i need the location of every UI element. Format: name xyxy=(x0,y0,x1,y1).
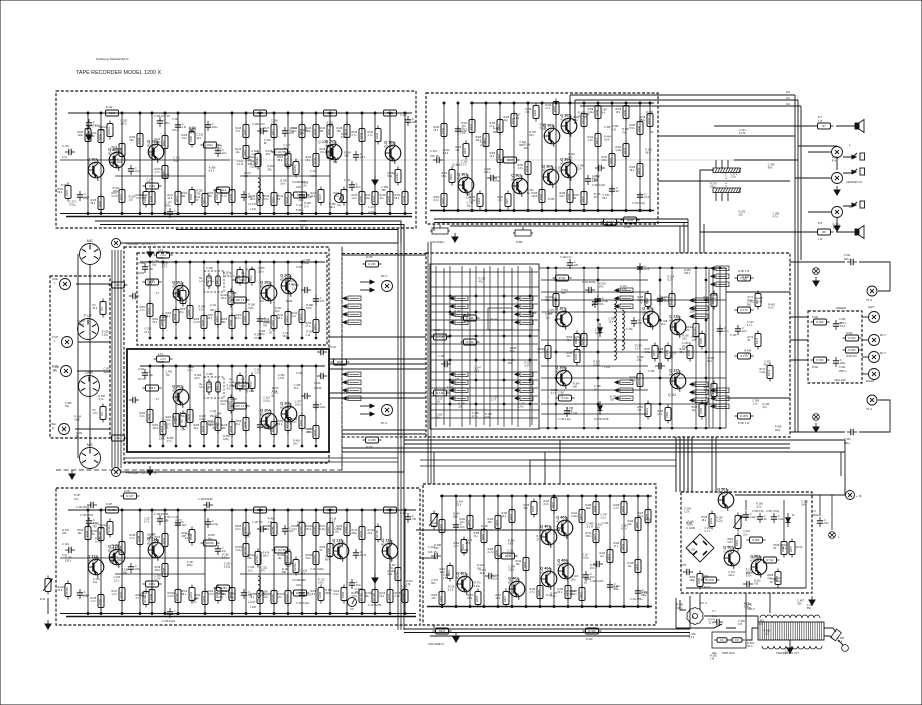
plug R arrow xyxy=(852,203,856,207)
svg-text:Tandbergs Radiofabrikk %: Tandbergs Radiofabrikk % xyxy=(96,57,129,61)
svg-text:VU: VU xyxy=(337,203,341,207)
svg-text:8,2 k: 8,2 k xyxy=(209,170,215,173)
svg-text:4,7 k: 4,7 k xyxy=(747,324,753,327)
svg-text:2,2 M: 2,2 M xyxy=(620,288,626,291)
svg-text:470: 470 xyxy=(355,591,360,594)
svg-text:BC 147: BC 147 xyxy=(147,541,157,545)
svg-text:390: 390 xyxy=(477,567,482,570)
svg-text:0,01µ: 0,01µ xyxy=(224,566,231,569)
resistor R238 xyxy=(331,359,350,365)
svg-text:100µ: 100µ xyxy=(365,197,371,200)
junction preL bot x176 xyxy=(175,337,177,339)
junction J rail x582 xyxy=(581,495,583,497)
svg-text:100µ: 100µ xyxy=(485,416,491,419)
inductor L103 xyxy=(258,576,260,598)
svg-text:R403: R403 xyxy=(439,595,443,602)
resistor R211 xyxy=(278,309,292,328)
capacitor C219 xyxy=(317,349,327,355)
svg-text:10µ: 10µ xyxy=(278,557,283,560)
junction matrix grid xyxy=(475,311,477,313)
resistor C 110 58µ xyxy=(272,149,291,155)
resistor R6 xyxy=(173,411,187,430)
svg-text:22 k: 22 k xyxy=(577,167,582,170)
svg-text:R435: R435 xyxy=(537,589,541,596)
resistor R330 xyxy=(434,121,448,140)
resistor R313 xyxy=(602,151,616,170)
resistor R163b xyxy=(292,520,306,539)
capacitor trim xyxy=(592,298,605,308)
junction I bus x101 xyxy=(100,613,102,615)
svg-text:22 k: 22 k xyxy=(299,199,304,202)
junction J rail x610 xyxy=(609,495,611,497)
resistor R164 xyxy=(704,291,718,310)
resistor R104 xyxy=(91,127,105,146)
resistor R152 xyxy=(567,331,581,350)
svg-text:390: 390 xyxy=(488,521,493,524)
svg-text:D 2 TM 47UB: D 2 TM 47UB xyxy=(594,418,609,421)
resistor R149 xyxy=(142,587,156,606)
svg-text:0,068: 0,068 xyxy=(310,175,317,178)
resistor R414 xyxy=(614,537,628,556)
resistor R216p xyxy=(221,289,235,308)
resistor R167 xyxy=(320,520,334,539)
svg-text:R315: R315 xyxy=(637,167,641,174)
svg-text:3,3 k: 3,3 k xyxy=(95,541,101,544)
svg-text:2,7 k: 2,7 k xyxy=(91,600,97,603)
svg-text:560: 560 xyxy=(130,139,135,142)
resistor R509 xyxy=(690,571,704,590)
node link R2 xyxy=(115,573,205,575)
main bus x404 xyxy=(403,243,405,630)
resistor R438 xyxy=(586,499,600,518)
svg-text:2,7 k: 2,7 k xyxy=(162,265,168,268)
resistor R196 xyxy=(291,192,310,198)
junction matrix grid xyxy=(449,335,451,337)
junction B rail x612 xyxy=(611,102,613,104)
wire xyxy=(704,624,722,628)
svg-text:27 k: 27 k xyxy=(306,325,311,328)
svg-text:R232: R232 xyxy=(299,419,303,426)
osc grid wire x720 xyxy=(719,270,721,426)
svg-text:560: 560 xyxy=(747,304,752,307)
output line 113 xyxy=(570,94,795,96)
switch contact xyxy=(450,380,468,385)
resistor R436 xyxy=(558,583,572,602)
svg-text:56 k: 56 k xyxy=(153,321,158,324)
svg-text:470: 470 xyxy=(738,623,743,626)
wire xyxy=(721,193,723,201)
svg-text:27 k: 27 k xyxy=(164,519,169,522)
svg-text:Q 206: Q 206 xyxy=(246,389,255,393)
resistor R198 xyxy=(155,561,169,580)
resistor R301 xyxy=(442,167,456,186)
junction I bus x362 xyxy=(361,613,363,615)
svg-text:6,8 k: 6,8 k xyxy=(264,198,270,201)
transistor Q 206 xyxy=(280,402,297,425)
wire xyxy=(259,262,261,338)
svg-text:R509: R509 xyxy=(697,577,701,584)
svg-text:BC 107 B: BC 107 B xyxy=(508,580,520,584)
capacitor C161 xyxy=(215,545,227,555)
junction matrix grid xyxy=(503,359,505,361)
svg-text:5,6 k: 5,6 k xyxy=(630,127,636,130)
svg-text:8,2 k: 8,2 k xyxy=(236,528,242,531)
junction osc grid xyxy=(659,319,661,321)
svg-text:6,8 k: 6,8 k xyxy=(306,557,312,560)
svg-text:1,5 k: 1,5 k xyxy=(764,632,770,635)
svg-text:R334: R334 xyxy=(525,165,529,172)
svg-text:68 k: 68 k xyxy=(289,530,294,533)
resistor R4 xyxy=(93,404,107,423)
svg-text:3,3 k: 3,3 k xyxy=(264,130,270,133)
wire xyxy=(637,496,639,606)
osc grid wire x556 xyxy=(555,270,557,426)
junction I rail x405 xyxy=(404,509,406,511)
svg-text:C 108 / 1,5 /: C 108 / 1,5 / xyxy=(252,123,265,126)
svg-text:390: 390 xyxy=(320,130,325,133)
svg-text:112: 112 xyxy=(786,97,790,100)
svg-text:27 k: 27 k xyxy=(546,107,551,110)
wire xyxy=(245,366,247,446)
svg-text:R117: R117 xyxy=(271,128,275,135)
switch contact xyxy=(711,274,729,279)
transistor Q 502 xyxy=(723,546,740,569)
main bus x428 xyxy=(427,242,429,484)
svg-text:470: 470 xyxy=(261,569,266,572)
junction osc rail x706 xyxy=(705,267,707,269)
svg-text:100µ: 100µ xyxy=(494,179,500,182)
svg-text:470: 470 xyxy=(526,111,531,114)
svg-text:33 k: 33 k xyxy=(135,170,140,173)
svg-text:R 236: R 236 xyxy=(369,262,376,266)
junction A bus x390 xyxy=(389,213,391,215)
bar wire upper xyxy=(734,159,798,161)
svg-text:560: 560 xyxy=(382,189,387,192)
resistor R121 xyxy=(278,151,292,170)
svg-text:R330: R330 xyxy=(441,127,445,134)
junction preR rail x176 xyxy=(175,365,177,367)
junction osc bus x672 xyxy=(671,427,673,429)
resistor R110 xyxy=(155,133,169,152)
junction matrix grid xyxy=(449,379,451,381)
svg-text:2,2 M: 2,2 M xyxy=(112,195,118,198)
resistor R182 xyxy=(208,187,222,206)
svg-text:R336: R336 xyxy=(567,193,571,200)
junction preR rail x288 xyxy=(287,365,289,367)
svg-text:18 k: 18 k xyxy=(616,111,621,114)
svg-text:8,2 k: 8,2 k xyxy=(747,645,753,648)
junction A rail x165 xyxy=(164,112,166,114)
junction osc grid xyxy=(597,403,599,405)
wire xyxy=(121,510,123,613)
svg-text:8,2 k: 8,2 k xyxy=(544,503,550,506)
resistor R157 xyxy=(645,343,659,362)
wire xyxy=(149,262,151,338)
junction preR bot x176 xyxy=(175,445,177,447)
svg-text:8Ω H: 8Ω H xyxy=(880,352,886,355)
svg-text:2,2 M: 2,2 M xyxy=(587,526,593,529)
main bus x798 xyxy=(797,100,799,432)
resistor R 187 xyxy=(735,275,754,281)
svg-text:PWR 2519: PWR 2519 xyxy=(722,651,735,655)
dashed partition x342 xyxy=(341,247,343,470)
wire xyxy=(569,103,571,210)
head arrow 3 xyxy=(370,404,374,408)
capacitor C122 xyxy=(241,191,254,201)
junction preR rail x163 xyxy=(162,365,164,367)
svg-text:YELLOW: YELLOW xyxy=(834,378,846,382)
connector P UP xyxy=(78,314,99,340)
svg-text:1,5 k: 1,5 k xyxy=(558,394,564,397)
svg-text:220: 220 xyxy=(739,214,744,217)
junction B rail x472 xyxy=(471,102,473,104)
svg-text:R116: R116 xyxy=(243,149,247,156)
svg-text:R238: R238 xyxy=(337,360,344,364)
svg-text:R 141: R 141 xyxy=(467,316,474,320)
resistor R180 xyxy=(182,129,196,148)
svg-text:RT H: RT H xyxy=(381,421,387,425)
resistor R308 xyxy=(501,157,520,163)
wire xyxy=(151,510,153,613)
svg-text:R120: R120 xyxy=(285,196,289,203)
wire xyxy=(443,268,445,425)
junction osc grid xyxy=(555,299,557,301)
junction preR bot x190 xyxy=(189,445,191,447)
junction matrix grid xyxy=(529,311,531,313)
jack link wire2 xyxy=(836,218,838,226)
supply rail R xyxy=(68,509,416,511)
resistor R197 xyxy=(321,507,340,513)
svg-text:R210: R210 xyxy=(271,319,275,326)
osc grid wire y340 xyxy=(541,339,648,341)
bus drop x680 xyxy=(679,437,681,492)
svg-text:250µ: 250µ xyxy=(682,345,688,348)
wire to C jack xyxy=(795,177,831,179)
svg-text:BC 147: BC 147 xyxy=(147,143,157,147)
svg-text:R112: R112 xyxy=(207,143,214,147)
svg-text:AD 150 E: AD 150 E xyxy=(557,562,569,566)
svg-text:68 k: 68 k xyxy=(325,558,330,561)
svg-text:1 M: 1 M xyxy=(306,334,310,337)
svg-text:47µ: 47µ xyxy=(763,406,768,409)
jack LEFT jack xyxy=(869,312,880,323)
fuse plug PWR 2519 xyxy=(712,632,746,655)
resistor R214a xyxy=(248,549,262,568)
matrix wire y304 xyxy=(431,303,538,305)
svg-text:22 k: 22 k xyxy=(368,532,373,535)
resistor R203 xyxy=(153,313,167,332)
junction I rail x152 xyxy=(151,509,153,511)
resistor R162 xyxy=(658,405,672,424)
resistor R143 xyxy=(78,524,92,543)
main bus x431 xyxy=(430,242,432,484)
junction preL rail x246 xyxy=(245,261,247,263)
resistor R7 xyxy=(815,123,834,129)
svg-text:68 k: 68 k xyxy=(768,167,773,170)
junction matrix grid xyxy=(503,335,505,337)
zener diode ZL xyxy=(786,513,791,527)
junction A rail x302 xyxy=(301,112,303,114)
resistor R230 xyxy=(264,419,278,438)
line 109 xyxy=(658,180,790,182)
svg-text:47µ: 47µ xyxy=(479,280,484,283)
svg-text:22 k: 22 k xyxy=(248,569,253,572)
wire xyxy=(433,452,435,484)
svg-text:R180: R180 xyxy=(189,135,193,142)
svg-text:25/25: 25/25 xyxy=(138,272,145,275)
resistor R132 xyxy=(368,126,382,145)
resistor R337 xyxy=(574,189,588,208)
svg-text:220: 220 xyxy=(524,147,529,150)
svg-text:R3: R3 xyxy=(100,307,104,311)
resistor R213a xyxy=(136,589,150,608)
resistor R124 xyxy=(306,151,320,170)
svg-text:18 k: 18 k xyxy=(278,159,283,162)
wire to R jack xyxy=(808,211,831,213)
junction preL bot x302 xyxy=(301,337,303,339)
svg-text:33 k: 33 k xyxy=(194,427,199,430)
bus wire B1 xyxy=(434,218,688,220)
svg-text:120 k: 120 k xyxy=(65,559,72,562)
supply rail BR xyxy=(440,495,652,497)
junction osc grid xyxy=(597,299,599,301)
svg-text:BC 149: BC 149 xyxy=(172,284,182,288)
junction B bus x528 xyxy=(527,210,529,212)
svg-text:2,2 M: 2,2 M xyxy=(756,300,762,303)
junction A bus x205 xyxy=(204,213,206,215)
svg-text:C 209: C 209 xyxy=(296,266,303,269)
power amplifier L dashed box xyxy=(426,93,658,224)
svg-text:C 113: C 113 xyxy=(344,179,351,182)
svg-text:22 k: 22 k xyxy=(456,503,461,506)
resistor R168 xyxy=(311,585,325,604)
wire xyxy=(623,496,625,606)
junction B rail x650 xyxy=(649,102,651,104)
svg-text:6,8 k: 6,8 k xyxy=(327,125,333,128)
resistor OR 4 xyxy=(233,383,252,389)
junction osc grid xyxy=(705,299,707,301)
main bus x801 xyxy=(800,106,802,260)
resistor R5 xyxy=(173,288,187,307)
junction preL rail x150 xyxy=(149,261,151,263)
potentiometer R461 xyxy=(43,576,52,595)
svg-text:R303: R303 xyxy=(441,197,445,204)
svg-text:2,7 k: 2,7 k xyxy=(352,134,358,137)
svg-text:R204a: R204a xyxy=(255,157,259,165)
matrix wire y320 xyxy=(431,319,538,321)
resistor R 146 xyxy=(431,390,450,396)
svg-text:750: 750 xyxy=(622,131,627,134)
resistor R128 xyxy=(337,122,351,141)
record head RT H lower xyxy=(382,405,393,416)
svg-text:R142b: R142b xyxy=(108,508,116,512)
switch contact xyxy=(615,304,633,309)
junction matrix grid xyxy=(449,295,451,297)
junction I bus x232 xyxy=(231,613,233,615)
switch contact xyxy=(615,296,633,301)
svg-text:390: 390 xyxy=(797,603,802,606)
svg-text:R206a: R206a xyxy=(395,173,399,181)
record head RT H upper xyxy=(382,281,393,292)
resistor R160 xyxy=(692,331,706,350)
svg-text:56 k: 56 k xyxy=(388,175,393,178)
wire xyxy=(301,113,303,213)
svg-text:68 k: 68 k xyxy=(248,163,253,166)
wire to JK xyxy=(735,494,845,496)
svg-text:1,5 k: 1,5 k xyxy=(300,132,306,135)
svg-text:120 k: 120 k xyxy=(306,528,313,531)
junction B rail x556 xyxy=(555,102,557,104)
svg-text:250µ: 250µ xyxy=(775,580,781,583)
svg-text:R 511b: R 511b xyxy=(706,578,715,582)
svg-text:33 k: 33 k xyxy=(356,584,361,587)
supply rail B xyxy=(470,102,654,104)
resistor R101 xyxy=(58,183,72,202)
switch contact xyxy=(515,372,533,377)
wire xyxy=(287,113,289,213)
junction osc grid xyxy=(705,403,707,405)
capacitor C601b xyxy=(833,357,846,367)
resistor R 226 1,2 M xyxy=(231,297,250,303)
svg-text:2,7 k: 2,7 k xyxy=(395,595,401,598)
wire to R7 top xyxy=(714,125,798,127)
svg-text:2,2 M: 2,2 M xyxy=(215,148,221,151)
transistor Q 305 xyxy=(560,114,577,137)
resistor R161 xyxy=(638,401,652,420)
junction A bus x122 xyxy=(121,213,123,215)
svg-text:0,01µ: 0,01µ xyxy=(212,523,219,526)
wire xyxy=(301,262,303,338)
resistor R309 xyxy=(526,103,540,122)
svg-text:33 k: 33 k xyxy=(58,589,63,592)
svg-text:47µ: 47µ xyxy=(568,156,573,159)
svg-text:R415: R415 xyxy=(635,563,639,570)
wire xyxy=(836,125,855,127)
junction I bus x405 xyxy=(404,613,406,615)
svg-text:2000µ: 2000µ xyxy=(812,514,819,517)
svg-text:R413: R413 xyxy=(607,553,611,560)
junction J rail x540 xyxy=(539,495,541,497)
resistor R228 xyxy=(222,419,236,438)
svg-text:3,3 k: 3,3 k xyxy=(588,139,594,142)
svg-text:R211a: R211a xyxy=(107,525,111,533)
resistor R407 xyxy=(496,589,510,608)
capacitor C113 xyxy=(349,181,362,191)
wire terminal 1 xyxy=(790,316,808,318)
wire xyxy=(844,440,846,495)
svg-text:1,5 k: 1,5 k xyxy=(158,353,164,356)
svg-text:R165b: R165b xyxy=(313,555,317,563)
svg-text:18 k: 18 k xyxy=(601,111,606,114)
junction B rail x640 xyxy=(639,102,641,104)
svg-text:33 k: 33 k xyxy=(824,522,829,525)
svg-text:C 405: C 405 xyxy=(602,522,609,525)
wire xyxy=(529,460,531,484)
svg-text:0,22µ: 0,22µ xyxy=(199,418,206,421)
svg-text:TAPE RECORDER MODEL 1200 X: TAPE RECORDER MODEL 1200 X xyxy=(76,70,161,76)
svg-text:8,2 k: 8,2 k xyxy=(341,136,347,139)
svg-text:0,01µ: 0,01µ xyxy=(645,351,652,354)
junction I bus x390 xyxy=(389,613,391,615)
svg-text:10µ: 10µ xyxy=(173,159,178,162)
switch contact xyxy=(615,288,633,293)
svg-text:0,01µ: 0,01µ xyxy=(785,651,792,654)
svg-text:R160b: R160b xyxy=(271,594,275,602)
svg-text:8,2 k: 8,2 k xyxy=(768,307,774,310)
wire xyxy=(525,496,527,606)
resistor R111 xyxy=(168,189,182,208)
wire xyxy=(374,510,376,613)
